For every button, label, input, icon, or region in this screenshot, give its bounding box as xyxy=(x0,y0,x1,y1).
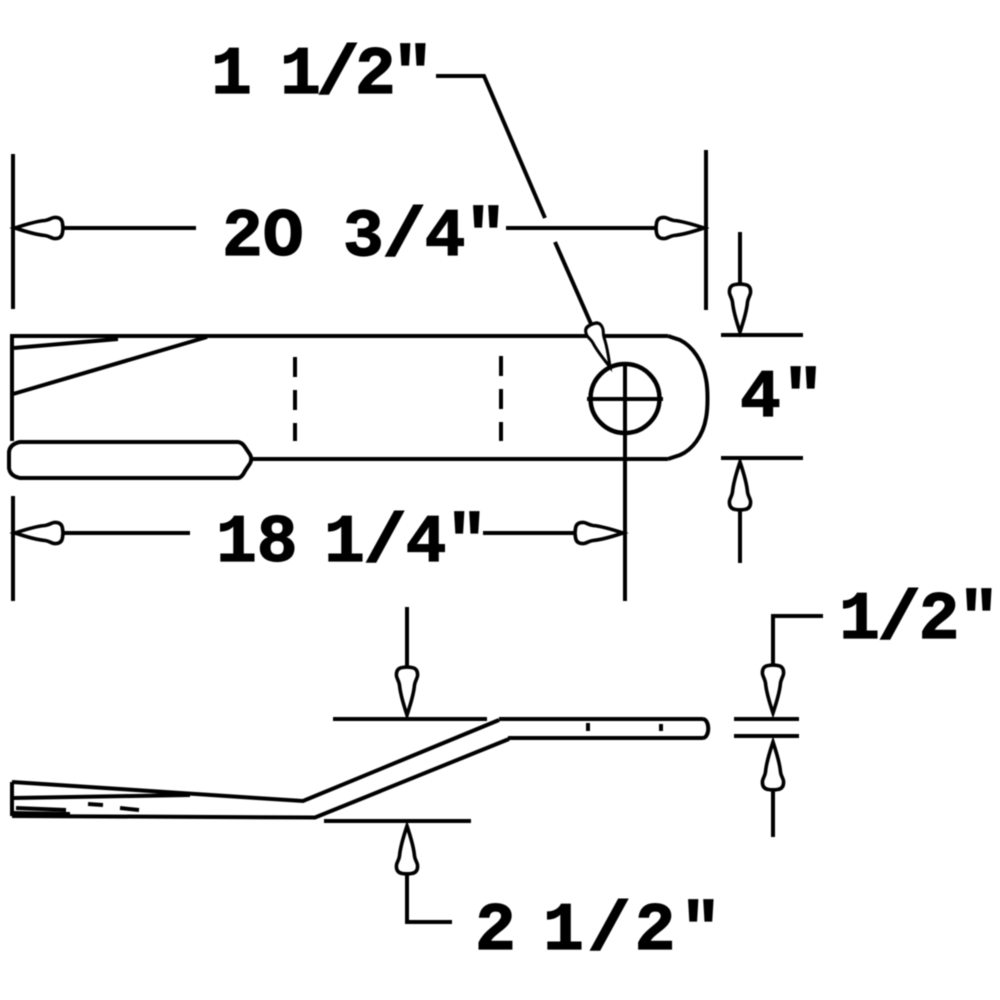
svg-text:2O: 2O xyxy=(222,199,304,276)
svg-text:1/2": 1/2" xyxy=(280,37,433,114)
svg-text:1/2": 1/2" xyxy=(839,582,999,659)
svg-text:1: 1 xyxy=(211,37,252,114)
svg-text:18: 18 xyxy=(216,505,298,582)
svg-text:2: 2 xyxy=(475,893,516,970)
svg-text:4": 4" xyxy=(740,360,824,437)
svg-text:1/4": 1/4" xyxy=(324,505,487,582)
svg-text:3/4": 3/4" xyxy=(343,199,506,276)
